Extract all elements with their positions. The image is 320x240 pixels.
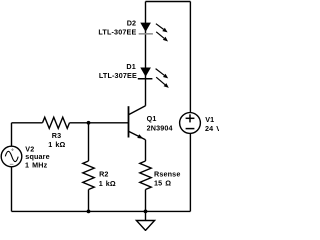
voltage source V1	[180, 113, 201, 134]
node junction R2 bottom	[87, 210, 91, 214]
svg-text:Q1: Q1	[147, 114, 157, 123]
svg-text:square: square	[25, 152, 49, 161]
svg-text:1 kΩ: 1 kΩ	[99, 179, 116, 188]
wire Rsense to bottom rail	[145, 190, 147, 212]
svg-text:1 MHz: 1 MHz	[25, 161, 48, 170]
svg-text:V1: V1	[205, 115, 214, 124]
wire emitter to Rsense	[145, 140, 147, 161]
svg-text:24 V: 24 V	[205, 124, 219, 133]
wire LED chain vertical	[145, 2, 147, 106]
svg-text:15 Ω: 15 Ω	[154, 179, 171, 188]
LED D2	[139, 23, 168, 42]
svg-text:LTL-307EE: LTL-307EE	[99, 71, 137, 80]
LED D1	[138, 68, 169, 88]
wire base row right of R3 to Q1 base	[70, 122, 129, 124]
resistor R2	[83, 161, 94, 190]
wire top rail	[146, 1, 191, 3]
svg-text:R3: R3	[52, 131, 62, 140]
svg-text:D2: D2	[127, 19, 137, 28]
resistor R3	[43, 117, 70, 128]
ground	[136, 211, 154, 230]
svg-text:Rsense: Rsense	[154, 169, 180, 178]
wire R2 top	[88, 123, 90, 161]
transistor Q1	[129, 106, 146, 140]
wire V2 bottom vertical	[11, 167, 13, 212]
wire V1 bottom vertical	[189, 133, 191, 211]
node junction R3/R2/base	[87, 121, 91, 125]
svg-text:LTL-307EE: LTL-307EE	[98, 27, 136, 36]
resistor Rsense	[140, 161, 151, 190]
wire V2 top vertical	[11, 123, 13, 147]
wire R2 bottom	[88, 190, 90, 212]
svg-text:1 kΩ: 1 kΩ	[48, 140, 65, 149]
wire base row left of R3	[12, 122, 43, 124]
svg-text:D1: D1	[126, 62, 136, 71]
wire bottom rail	[12, 210, 191, 212]
voltage source V2	[1, 146, 22, 167]
node junction Rsense/ground	[144, 210, 148, 214]
svg-text:R2: R2	[99, 170, 109, 179]
svg-text:2N3904: 2N3904	[147, 123, 173, 132]
wire V1 top vertical	[189, 2, 191, 113]
